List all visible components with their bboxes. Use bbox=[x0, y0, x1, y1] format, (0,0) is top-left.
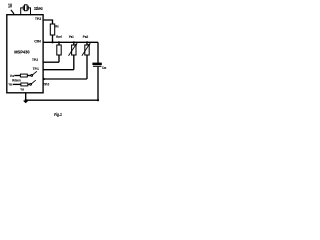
resistor Rref bbox=[57, 42, 61, 62]
internal output driver row 1: Vcc label bbox=[10, 73, 15, 78]
svg-text:MSP430: MSP430 bbox=[14, 49, 30, 54]
pin TP.1 label bbox=[33, 66, 40, 71]
internal output driver row 2: Vss label bbox=[9, 81, 13, 86]
node junction Rc/bus bbox=[51, 41, 53, 43]
label Rc bbox=[55, 24, 59, 29]
right rail from bus to capacitor bbox=[97, 42, 99, 63]
wire Vss to Rdson resistor row 2 bbox=[13, 83, 21, 85]
svg-text:Pa2: Pa2 bbox=[83, 34, 89, 39]
svg-text:TP.0: TP.0 bbox=[43, 82, 50, 87]
svg-text:Rref: Rref bbox=[56, 34, 62, 39]
svg-text:TP.3: TP.3 bbox=[35, 16, 42, 21]
ground rail bbox=[26, 99, 98, 101]
resistor Rc bbox=[50, 24, 54, 35]
wire TP.3 to resistor Rc bbox=[43, 20, 52, 24]
svg-text:TP.1: TP.1 bbox=[33, 66, 40, 71]
wire XOUT down to box top bbox=[29, 8, 31, 15]
resistor Rdson low side bbox=[21, 83, 28, 86]
ground symbol bbox=[23, 101, 29, 104]
node junction Pa2/bus bbox=[86, 41, 88, 43]
node junction TP.0 bbox=[43, 78, 45, 80]
label Pa2 bbox=[83, 34, 89, 39]
right rail from capacitor to ground rail bbox=[97, 67, 99, 100]
crystal right plate bbox=[27, 6, 29, 11]
label Rdson bbox=[12, 78, 21, 82]
svg-text:10: 10 bbox=[8, 3, 12, 9]
wire XIN up from box top bbox=[21, 8, 23, 15]
wire TP.2 to Rref bottom bbox=[43, 61, 59, 63]
variable resistor Pa1 bbox=[69, 42, 78, 69]
figure caption Fig.1 bbox=[54, 112, 62, 117]
node junction ground bbox=[25, 99, 27, 101]
switch lever row 2 bbox=[31, 80, 35, 84]
wire TP.1 to Pa1 bottom bbox=[43, 69, 74, 71]
svg-text:Rc: Rc bbox=[55, 24, 59, 29]
svg-text:TP.2: TP.2 bbox=[32, 57, 39, 62]
resistor Rdson high side bbox=[20, 74, 27, 77]
label MSP430 bbox=[14, 49, 30, 54]
svg-text:32kHz: 32kHz bbox=[34, 6, 43, 11]
pin CIN label bbox=[34, 38, 41, 43]
leader line from 10 to MSP430 box bbox=[11, 10, 14, 14]
reference numeral 10 bbox=[8, 3, 12, 9]
capacitor Cm bottom plate bbox=[93, 66, 102, 67]
MSP430 box U1 bbox=[7, 15, 43, 93]
wire Rdson to switch contact row 2 bbox=[28, 83, 30, 85]
svg-text:Vcc: Vcc bbox=[10, 73, 15, 78]
crystal left plate bbox=[22, 6, 24, 11]
wire TP.0 to Pa2 bottom bbox=[43, 78, 87, 80]
label Rref bbox=[56, 34, 62, 39]
capacitor Cm top plate bbox=[92, 63, 101, 65]
wire Rdson to switch contact bbox=[27, 75, 31, 77]
svg-text:Fig.1: Fig.1 bbox=[54, 112, 62, 117]
label Cm bbox=[102, 65, 107, 70]
label Pa1 bbox=[69, 34, 74, 39]
svg-text:Rdson: Rdson bbox=[12, 78, 21, 82]
svg-text:Vss: Vss bbox=[9, 81, 13, 86]
node junction Pa1/bus bbox=[73, 41, 75, 43]
switch contact circle row 2 bbox=[30, 83, 32, 85]
switch lever row 1 bbox=[33, 71, 37, 75]
pin TP.0 label bbox=[43, 82, 50, 87]
pin TP.3 label bbox=[35, 16, 42, 21]
wire Rc bottom to bus bbox=[52, 35, 54, 42]
svg-text:Cm: Cm bbox=[102, 65, 107, 70]
switch contact circle row 1 bbox=[31, 75, 33, 77]
wire Vss pin down from box bbox=[25, 93, 27, 100]
crystal body rect bbox=[25, 5, 28, 11]
node junction right rail / ground rail bbox=[97, 99, 99, 101]
wire CIN common bus bbox=[43, 41, 98, 43]
pin TP.2 label bbox=[32, 57, 39, 62]
node junction Rref/bus bbox=[58, 41, 60, 43]
svg-text:CIN: CIN bbox=[34, 38, 41, 43]
variable resistor Pa2 bbox=[82, 42, 91, 79]
crystal X1 bbox=[21, 5, 31, 15]
label 32kHz bbox=[34, 6, 43, 11]
svg-text:Pa1: Pa1 bbox=[69, 34, 74, 39]
wire Vcc to Rdson resistor bbox=[14, 75, 20, 77]
svg-text:Vss: Vss bbox=[21, 87, 25, 92]
pin Vss label bbox=[21, 87, 25, 92]
